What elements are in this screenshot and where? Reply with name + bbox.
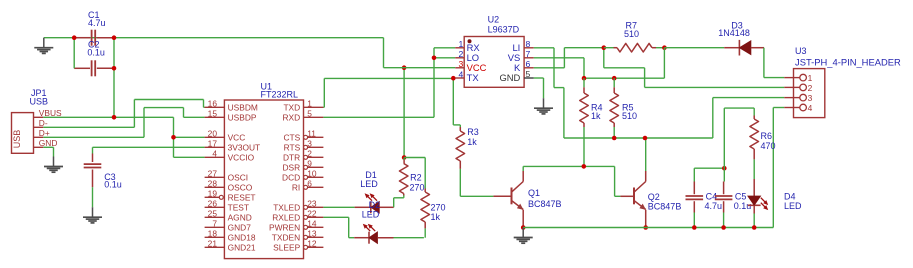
svg-text:JST-PH_4-PIN_HEADER: JST-PH_4-PIN_HEADER	[795, 57, 901, 68]
svg-text:DSR: DSR	[283, 162, 301, 172]
svg-text:FT232RL: FT232RL	[261, 90, 299, 100]
svg-text:VCCIO: VCCIO	[228, 152, 255, 162]
svg-text:BC847B: BC847B	[648, 202, 682, 212]
svg-text:OSCO: OSCO	[228, 182, 253, 192]
svg-text:4.7u: 4.7u	[88, 18, 106, 28]
svg-text:6: 6	[307, 178, 312, 188]
svg-text:15: 15	[208, 108, 218, 118]
svg-text:D4: D4	[784, 191, 796, 201]
svg-text:1: 1	[307, 98, 312, 108]
svg-text:RXD: RXD	[283, 112, 301, 122]
svg-text:U3: U3	[795, 46, 807, 56]
svg-text:SLEEP: SLEEP	[273, 242, 300, 252]
svg-text:R3: R3	[467, 127, 479, 137]
svg-text:13: 13	[307, 228, 317, 238]
svg-text:GND18: GND18	[228, 232, 256, 242]
svg-text:28: 28	[208, 178, 218, 188]
svg-text:TEST: TEST	[228, 202, 249, 212]
svg-text:TXD: TXD	[283, 102, 300, 112]
svg-text:7: 7	[526, 49, 531, 59]
svg-text:RXLED: RXLED	[272, 212, 300, 222]
svg-text:USBDP: USBDP	[228, 112, 257, 122]
svg-text:270: 270	[431, 202, 446, 212]
svg-text:Q2: Q2	[648, 192, 660, 202]
svg-text:1: 1	[459, 39, 464, 49]
svg-text:0.1u: 0.1u	[104, 180, 122, 190]
svg-text:C5: C5	[735, 191, 747, 201]
svg-text:GND21: GND21	[228, 242, 256, 252]
svg-text:VBUS: VBUS	[39, 108, 62, 118]
svg-text:1k: 1k	[431, 212, 441, 222]
svg-text:0.1u: 0.1u	[87, 47, 105, 57]
svg-text:LED: LED	[362, 210, 380, 220]
svg-text:LED: LED	[784, 201, 802, 211]
svg-text:D+: D+	[39, 128, 50, 138]
svg-text:U2: U2	[488, 14, 500, 24]
svg-text:16: 16	[208, 98, 218, 108]
svg-text:2: 2	[459, 49, 464, 59]
svg-text:270: 270	[410, 182, 425, 192]
svg-text:21: 21	[208, 238, 218, 248]
svg-text:USB: USB	[12, 130, 22, 149]
svg-text:DTR: DTR	[283, 152, 300, 162]
svg-text:RTS: RTS	[284, 142, 301, 152]
svg-text:18: 18	[208, 228, 218, 238]
svg-text:6: 6	[526, 59, 531, 69]
svg-text:1k: 1k	[591, 111, 601, 121]
svg-text:VCC: VCC	[228, 132, 246, 142]
svg-text:1N4148: 1N4148	[718, 28, 750, 38]
svg-text:TX: TX	[467, 72, 480, 83]
svg-text:4: 4	[459, 69, 464, 79]
svg-text:23: 23	[307, 198, 317, 208]
svg-text:R6: R6	[761, 131, 773, 141]
svg-text:OSCI: OSCI	[228, 172, 248, 182]
svg-text:Q1: Q1	[528, 188, 540, 198]
svg-text:510: 510	[624, 29, 639, 39]
svg-text:GND: GND	[499, 72, 520, 83]
svg-text:4.7u: 4.7u	[705, 201, 723, 211]
svg-text:3: 3	[808, 93, 813, 103]
svg-text:L9637D: L9637D	[488, 25, 520, 35]
svg-text:5: 5	[307, 108, 312, 118]
svg-text:9: 9	[307, 158, 312, 168]
svg-text:19: 19	[208, 188, 218, 198]
svg-text:3: 3	[307, 138, 312, 148]
svg-text:14: 14	[307, 218, 317, 228]
svg-text:LED: LED	[360, 179, 378, 189]
svg-text:GND7: GND7	[228, 222, 252, 232]
svg-text:AGND: AGND	[228, 212, 252, 222]
svg-text:TXLED: TXLED	[273, 202, 300, 212]
svg-text:USB: USB	[30, 97, 49, 107]
svg-text:26: 26	[208, 198, 218, 208]
svg-text:27: 27	[208, 168, 218, 178]
svg-text:470: 470	[761, 141, 776, 151]
svg-text:BC847B: BC847B	[528, 199, 562, 209]
svg-text:12: 12	[307, 238, 317, 248]
svg-text:PWREN: PWREN	[269, 222, 300, 232]
svg-text:10: 10	[307, 168, 317, 178]
svg-text:4: 4	[808, 103, 813, 113]
svg-text:TXDEN: TXDEN	[272, 232, 300, 242]
svg-text:R2: R2	[410, 172, 422, 182]
svg-text:1k: 1k	[467, 137, 477, 147]
svg-text:CTS: CTS	[283, 132, 300, 142]
svg-text:RI: RI	[292, 182, 300, 192]
svg-text:11: 11	[307, 128, 316, 138]
svg-text:DCD: DCD	[282, 172, 300, 182]
svg-text:USBDM: USBDM	[228, 102, 258, 112]
svg-text:3: 3	[459, 59, 464, 69]
svg-text:510: 510	[622, 111, 637, 121]
svg-text:2: 2	[808, 83, 813, 93]
svg-text:1: 1	[808, 73, 813, 83]
svg-text:3V3OUT: 3V3OUT	[228, 142, 261, 152]
svg-text:D2: D2	[369, 200, 381, 210]
svg-text:D-: D-	[39, 118, 48, 128]
svg-text:GND: GND	[39, 138, 58, 148]
svg-text:25: 25	[208, 208, 218, 218]
svg-text:2: 2	[307, 148, 312, 158]
svg-text:8: 8	[526, 39, 531, 49]
svg-text:22: 22	[307, 208, 317, 218]
svg-text:RESET: RESET	[228, 192, 256, 202]
svg-text:7: 7	[212, 218, 217, 228]
svg-text:5: 5	[526, 69, 531, 79]
svg-text:4: 4	[212, 148, 217, 158]
svg-text:17: 17	[208, 138, 218, 148]
svg-text:20: 20	[208, 128, 218, 138]
